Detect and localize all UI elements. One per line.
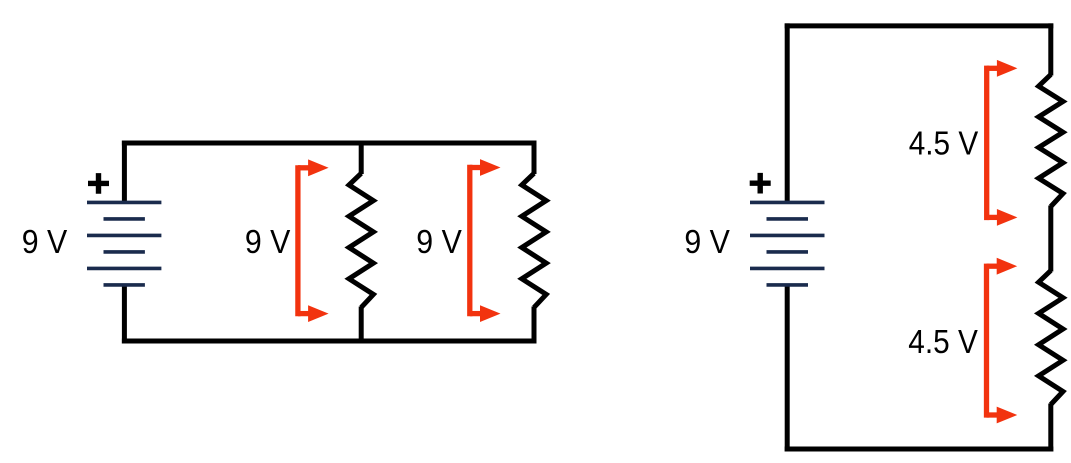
wire: resistor R2 top lead [532,141,537,175]
resistor R1 (left circuit, middle branch) [349,173,373,307]
voltage arrow across R1: top arrowhead [308,159,329,176]
wire: resistor R2 bottom lead [532,307,537,344]
voltage arrow across R2: top arrow shaft [470,165,481,170]
wire: left circuit bottom rail [122,339,537,344]
resistor R4 (right circuit, bottom) [1039,271,1063,405]
svg-text:9 V: 9 V [416,223,462,260]
battery B1 plate 4 (short) [104,250,145,254]
plus sign (battery B1 positive terminal) [88,173,109,194]
wire: right circuit top rail [785,23,1054,28]
wire: battery B1 negative lead [122,285,127,344]
resistor R2 (left circuit, right branch) [522,173,546,307]
plus sign (battery B2 positive terminal) [750,173,771,194]
voltage arrow across R3: top arrow shaft [987,66,998,71]
voltage arrow across R3: top arrowhead [997,60,1018,77]
wire: battery B1 positive lead [122,141,127,203]
svg-text:9 V: 9 V [684,223,730,260]
voltage arrow across R4: bottom arrowhead [997,407,1018,424]
battery B1 plate 1 (long) [87,201,161,205]
wire: battery B2 positive lead [785,23,790,202]
voltage arrow across R1: top arrow shaft [298,165,309,170]
voltage arrow across R2: top arrowhead [480,159,501,176]
voltage arrow across R4: top arrowhead [997,258,1018,275]
wire: junction between R3 and R4 [1048,206,1053,272]
voltage arrow across R2: vertical line [467,165,472,316]
voltage arrow across R4: top arrow shaft [987,264,998,269]
wire: battery B2 negative lead [785,285,790,452]
wire: left circuit top rail [122,141,537,146]
battery B2 plate 5 (long) [750,267,825,271]
battery B2 plate 4 (short) [767,250,809,254]
wire: resistor R1 bottom lead [359,307,364,344]
battery B2 plate 2 (short) [767,217,809,221]
battery B1 plate 6 (short) [104,283,145,287]
voltage arrow across R1: bottom arrow shaft [298,311,309,316]
voltage arrow across R2: bottom arrowhead [480,305,501,322]
wire: resistor R1 top lead [359,141,364,175]
voltage arrow across R1: bottom arrowhead [308,305,329,322]
svg-text:4.5 V: 4.5 V [909,125,979,162]
battery B2 plate 3 (long) [750,234,825,238]
svg-text:9 V: 9 V [22,223,68,260]
svg-text:4.5 V: 4.5 V [908,323,978,360]
battery B1 plate 2 (short) [104,217,145,221]
voltage arrow across R3: bottom arrowhead [997,209,1018,226]
voltage arrow across R3: bottom arrow shaft [987,215,998,220]
wire: right circuit bottom rail [785,447,1054,452]
voltage arrow across R4: vertical line [984,264,989,418]
voltage arrow across R2: bottom arrow shaft [470,311,481,316]
battery B1 plate 5 (long) [87,267,161,271]
resistor R3 (right circuit, top) [1039,75,1063,207]
voltage arrow across R3: vertical line [984,66,989,221]
voltage arrow across R4: bottom arrow shaft [987,412,998,417]
battery B1 plate 3 (long) [87,234,161,238]
wire: resistor R4 bottom lead [1048,404,1053,452]
svg-text:9 V: 9 V [245,223,291,260]
battery B2 plate 6 (short) [767,283,809,287]
battery B2 plate 1 (long) [750,201,825,205]
voltage arrow across R1: vertical line [295,165,300,316]
wire: resistor R3 top lead [1048,23,1053,75]
